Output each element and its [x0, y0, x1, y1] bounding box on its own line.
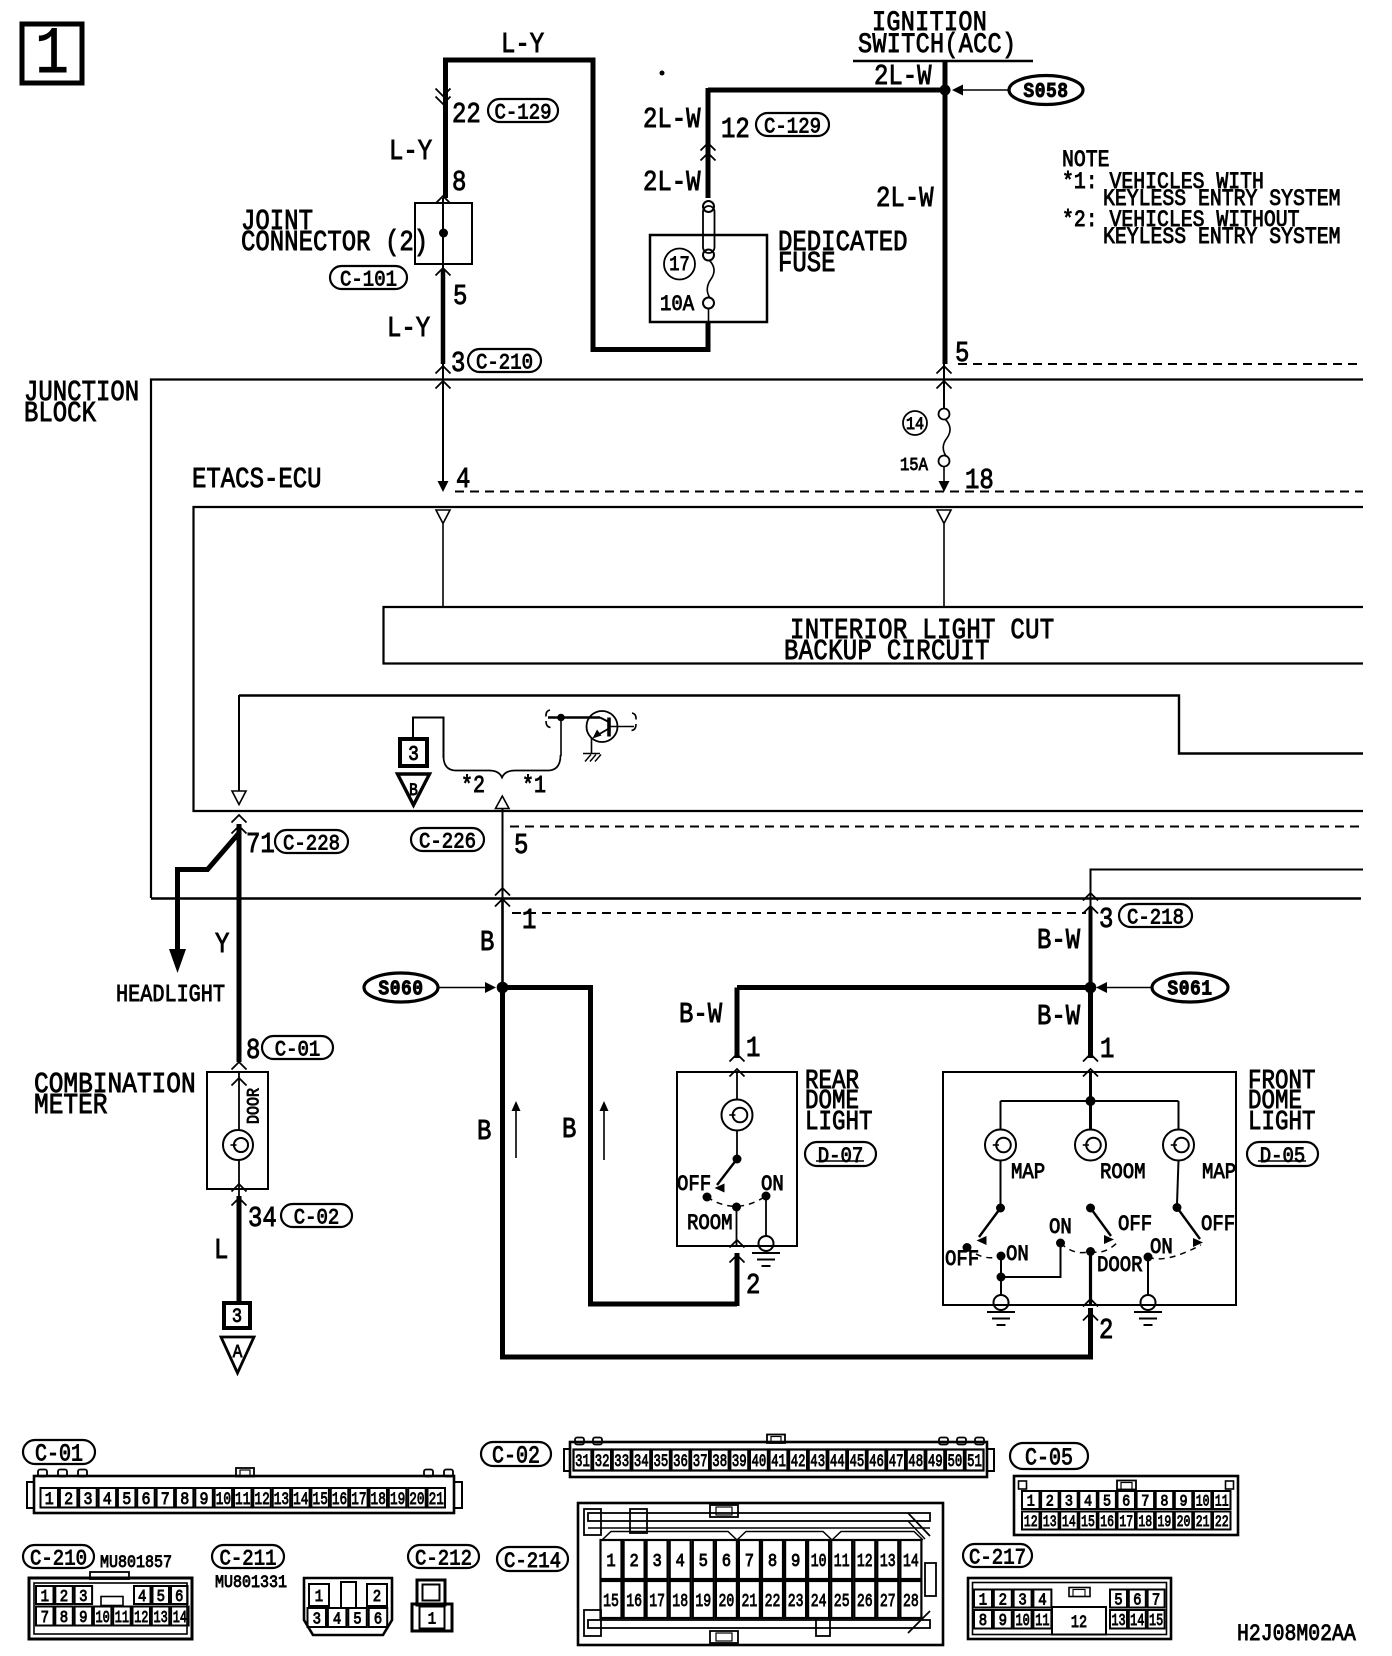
svg-text:13: 13 [880, 1551, 896, 1572]
map right ON wire down [1147, 1257, 1149, 1296]
transistor base junction dot [557, 714, 565, 722]
svg-text:21: 21 [1196, 1514, 1210, 1532]
terminal 3 box meter output [224, 1303, 250, 1328]
arrow into ETACS at pin 18 [939, 481, 950, 492]
map left branch node [997, 1273, 1006, 1282]
svg-text:34: 34 [248, 1202, 277, 1234]
svg-text:ON: ON [1049, 1216, 1072, 1241]
svg-text:22: 22 [765, 1591, 781, 1612]
svg-text:1: 1 [1100, 1033, 1114, 1065]
svg-text:9: 9 [1179, 1494, 1187, 1511]
svg-text:28: 28 [903, 1591, 919, 1612]
front dome map bulb left [985, 1130, 1016, 1161]
svg-text:B: B [477, 1115, 491, 1147]
svg-text:7: 7 [161, 1489, 170, 1509]
svg-text:B: B [480, 926, 494, 958]
ETACS-ECU box outline [194, 507, 1364, 811]
svg-text:41: 41 [771, 1453, 786, 1471]
connector C-05 pins 1-11 [1022, 1491, 1040, 1509]
svg-text:7: 7 [1152, 1590, 1160, 1609]
svg-text:17: 17 [669, 254, 689, 277]
output triangle to pin 71 [232, 791, 246, 805]
svg-text:4: 4 [1038, 1590, 1046, 1609]
wire ignition crossing into junction block [943, 364, 945, 408]
rear dome ON to ground wire [765, 1196, 767, 1236]
ETACS input triangle pin18 branch [937, 510, 951, 524]
svg-text:ETACS-ECU: ETACS-ECU [192, 463, 322, 495]
svg-text:ON: ON [761, 1173, 784, 1198]
svg-text:15: 15 [1081, 1514, 1095, 1532]
wire 2L-W ignition switch vertical [943, 61, 948, 364]
svg-text:8: 8 [452, 166, 466, 198]
svg-text:3: 3 [408, 743, 419, 767]
svg-text:5: 5 [1103, 1494, 1111, 1511]
svg-text:11: 11 [115, 1609, 129, 1627]
connector label C-01 [23, 1440, 95, 1464]
wire thick S060 to front dome loop [503, 985, 1091, 1357]
svg-text:BLOCK: BLOCK [24, 397, 96, 429]
svg-text:39: 39 [732, 1453, 747, 1471]
svg-text:12: 12 [134, 1609, 148, 1627]
svg-text:C-02: C-02 [294, 1206, 340, 1231]
front dome map bulb right [1163, 1130, 1194, 1161]
connector C-05 body [1014, 1476, 1238, 1535]
svg-text:12: 12 [721, 113, 750, 145]
page number box 1 [22, 24, 82, 83]
rear dome switch pivot [733, 1155, 742, 1164]
svg-text:3: 3 [232, 1306, 242, 1329]
svg-text:S060: S060 [378, 977, 423, 1001]
svg-text:8: 8 [180, 1489, 189, 1509]
svg-text:19: 19 [695, 1591, 711, 1612]
svg-text:1: 1 [315, 1587, 323, 1606]
connector C-01 pins 1-21 [41, 1488, 59, 1508]
connector label C-210 [468, 349, 541, 372]
svg-text:1: 1 [522, 904, 536, 936]
svg-text:40: 40 [752, 1453, 767, 1471]
svg-text:9: 9 [79, 1608, 87, 1627]
svg-text:KEYLESS ENTRY SYSTEM: KEYLESS ENTRY SYSTEM [1103, 224, 1340, 251]
svg-text:C-210: C-210 [30, 1547, 87, 1572]
svg-text:20: 20 [409, 1489, 424, 1510]
svg-text:C-226: C-226 [419, 830, 476, 855]
svg-text:S061: S061 [1167, 977, 1212, 1001]
svg-text:6: 6 [374, 1609, 382, 1628]
svg-text:26: 26 [857, 1591, 873, 1612]
svg-text:C-214: C-214 [504, 1550, 561, 1575]
connector label C-05 [1010, 1443, 1088, 1469]
rear dome switch arc [707, 1196, 766, 1206]
svg-text:17: 17 [351, 1489, 366, 1510]
svg-text:20: 20 [719, 1591, 735, 1612]
wire fuse output [708, 309, 710, 323]
meter wire crossing chevrons [232, 1062, 247, 1070]
wire B down to S060 [501, 898, 504, 987]
connector C-02 body [570, 1442, 987, 1477]
connector C-05 pins 12-22 [1022, 1512, 1040, 1530]
svg-text:1: 1 [979, 1590, 987, 1609]
wire Y combination meter feed [237, 824, 242, 1062]
connector C-211 pins [309, 1584, 329, 1606]
front dome feed to distribution [1089, 1072, 1092, 1101]
wire option select crossing block bottom [495, 888, 510, 896]
svg-text:L: L [214, 1234, 228, 1266]
map right switch arc [1148, 1245, 1201, 1259]
svg-text:METER: METER [34, 1090, 107, 1122]
svg-text:20: 20 [1177, 1514, 1191, 1532]
wire front dome riser to page right [1091, 870, 1364, 911]
room ON contact [1056, 1239, 1065, 1248]
svg-text:C-210: C-210 [476, 351, 533, 376]
svg-text:10A: 10A [660, 293, 695, 318]
svg-text:36: 36 [673, 1453, 688, 1471]
svg-text:L-Y: L-Y [389, 135, 432, 167]
dedicated fuse box [650, 235, 767, 322]
svg-text:2: 2 [64, 1489, 73, 1509]
wire fuse 14 output [943, 466, 945, 488]
splice S058 [1009, 76, 1083, 105]
svg-text:6: 6 [722, 1552, 731, 1572]
svg-text:24: 24 [811, 1591, 827, 1612]
svg-text:23: 23 [788, 1591, 804, 1612]
svg-text:ROOM: ROOM [687, 1212, 733, 1237]
svg-text:49: 49 [928, 1453, 943, 1471]
junction block bottom edge [151, 897, 1361, 899]
svg-text:10: 10 [95, 1609, 109, 1627]
map left switch arc [967, 1248, 1001, 1258]
svg-text:3: 3 [451, 347, 465, 379]
map left bulb to switch [1000, 1161, 1002, 1205]
transistor ground [583, 753, 600, 755]
svg-text:2: 2 [999, 1590, 1007, 1609]
svg-text:10: 10 [216, 1489, 231, 1510]
svg-text:1: 1 [606, 1552, 615, 1572]
connector C-214 pins 1-14 [601, 1540, 622, 1579]
svg-text:C-129: C-129 [495, 101, 552, 126]
transistor collector wire [609, 726, 634, 728]
svg-text:B-W: B-W [1037, 924, 1080, 956]
connector label D-07 [805, 1142, 876, 1166]
svg-text:1: 1 [35, 18, 69, 92]
transistor emitter wire [591, 737, 593, 754]
connector C-214 pins 15-28 [601, 1581, 622, 1618]
svg-text:MU801857: MU801857 [100, 1552, 172, 1572]
svg-text:C-02: C-02 [492, 1443, 540, 1470]
svg-text:2: 2 [1099, 1314, 1113, 1346]
svg-text:48: 48 [908, 1453, 923, 1471]
svg-text:2: 2 [746, 1269, 760, 1301]
fuse 14 top terminal [939, 409, 950, 420]
front dome map lamp right drop [1178, 1101, 1180, 1130]
svg-text:HEADLIGHT: HEADLIGHT [116, 982, 225, 1009]
fuse number circle 17 [664, 249, 695, 280]
node S061 junction dot [1085, 982, 1097, 994]
svg-text:12: 12 [1024, 1514, 1038, 1532]
rear dome ON contact [762, 1192, 771, 1201]
connector label C-129 (L-Y branch) [488, 99, 558, 122]
arrow into ETACS at pin 4 [438, 481, 449, 492]
connector label C-02 (wire) [281, 1204, 352, 1227]
svg-text:ON: ON [1150, 1236, 1173, 1261]
connector label C-212 [408, 1545, 479, 1568]
svg-text:C-01: C-01 [35, 1441, 83, 1468]
svg-text:8: 8 [768, 1552, 777, 1572]
map left switch pivot [996, 1204, 1005, 1213]
svg-text:9: 9 [999, 1611, 1007, 1630]
svg-text:22: 22 [452, 98, 481, 130]
wire to backup circuit left [442, 524, 444, 606]
svg-text:19: 19 [1158, 1514, 1172, 1532]
rear dome bulb [722, 1100, 753, 1131]
svg-text:B: B [409, 781, 418, 800]
svg-text:2: 2 [1046, 1494, 1054, 1511]
svg-text:35: 35 [654, 1453, 669, 1471]
door indicator bulb [223, 1130, 253, 1160]
connector A triangle [221, 1337, 254, 1373]
connector C-211 body [304, 1578, 392, 1635]
svg-text:7: 7 [745, 1552, 754, 1572]
svg-text:11: 11 [235, 1489, 250, 1510]
connector C-217 pins 8-15 [974, 1610, 992, 1629]
wire thick rear-to-front dome bus [737, 985, 1091, 990]
svg-text:3: 3 [1065, 1494, 1073, 1511]
svg-text:14: 14 [1062, 1514, 1076, 1532]
svg-text:2: 2 [629, 1552, 638, 1572]
connector label C-210 [23, 1545, 94, 1568]
connector label C-02 [481, 1442, 551, 1466]
svg-text:14: 14 [293, 1489, 308, 1510]
map left ground circle [994, 1295, 1009, 1310]
splice S061 [1152, 973, 1228, 1002]
svg-text:12: 12 [857, 1551, 873, 1572]
svg-text:5: 5 [514, 829, 528, 861]
svg-text:16: 16 [1100, 1514, 1114, 1532]
svg-text:OFF: OFF [677, 1173, 711, 1198]
meter bulb to pin 34 [238, 1160, 240, 1196]
wire rear dome pin2 thick [735, 1253, 740, 1306]
svg-text:3: 3 [83, 1489, 92, 1509]
svg-text:10: 10 [1015, 1612, 1029, 1630]
svg-text:14: 14 [906, 414, 924, 434]
wire L-Y to junction block [441, 270, 446, 364]
dashed boundary right of ignition wire [958, 363, 1363, 365]
svg-text:31: 31 [575, 1453, 590, 1471]
front dome room lamp drop [1089, 1101, 1092, 1130]
svg-text:3: 3 [1099, 903, 1113, 935]
rear dome ROOM contact [732, 1203, 741, 1212]
connector label C-217 [963, 1544, 1032, 1567]
svg-text:16: 16 [332, 1489, 347, 1510]
front dome room bulb [1075, 1130, 1106, 1161]
svg-text:9: 9 [791, 1552, 800, 1572]
dashed line below block bottom [512, 912, 1086, 914]
map left switch blade [979, 1208, 1001, 1237]
svg-text:45: 45 [850, 1453, 865, 1471]
svg-text:SWITCH(ACC): SWITCH(ACC) [858, 29, 1016, 60]
svg-text:MU801331: MU801331 [215, 1572, 287, 1592]
node S058 junction dot [940, 85, 951, 96]
svg-text:14: 14 [903, 1551, 919, 1572]
svg-text:21: 21 [429, 1489, 444, 1510]
svg-text:*2: *2 [461, 773, 485, 800]
map left ground [987, 1311, 1015, 1313]
svg-text:1: 1 [746, 1032, 760, 1064]
map left OFF contact [963, 1243, 972, 1252]
room switch arc right [1091, 1243, 1118, 1252]
connector label C-01 (wire) [262, 1036, 333, 1059]
wire base junction to brace *1 [560, 718, 562, 757]
svg-text:B-W: B-W [1037, 1000, 1080, 1032]
svg-text:11: 11 [1215, 1493, 1229, 1511]
svg-text:13: 13 [1043, 1514, 1057, 1532]
front dome light box [943, 1072, 1236, 1305]
svg-text:6: 6 [141, 1489, 150, 1509]
svg-text:2: 2 [60, 1587, 68, 1606]
svg-text:FUSE: FUSE [778, 247, 836, 279]
svg-text:DOOR: DOOR [1097, 1254, 1143, 1279]
scan speck [660, 71, 665, 76]
room switch arc left [1061, 1243, 1091, 1253]
svg-text:27: 27 [880, 1591, 896, 1612]
ETACS input triangle pin4 branch [436, 510, 450, 524]
fuse terminal circle mid [703, 250, 714, 261]
svg-text:12: 12 [1071, 1612, 1087, 1632]
svg-text:2L-W: 2L-W [643, 166, 701, 198]
option select brace [444, 755, 561, 778]
connector C-129 pin 22 crossing chevrons [436, 89, 451, 97]
svg-text:5: 5 [353, 1609, 361, 1628]
svg-text:S058: S058 [1023, 80, 1068, 104]
svg-text:MAP: MAP [1011, 1161, 1045, 1186]
connector label D-05 [1247, 1142, 1318, 1166]
inline connector bracket right [632, 713, 637, 731]
svg-text:C-01: C-01 [275, 1038, 321, 1063]
wire 2L-W horizontal to fuse branch [708, 88, 948, 93]
rear dome ground circle [759, 1236, 774, 1251]
wire option select down [502, 809, 504, 899]
connector C-210 pins 7-14 [36, 1607, 54, 1626]
connector C-210 pins 1-6 [36, 1586, 54, 1604]
svg-text:46: 46 [869, 1453, 884, 1471]
room switch blade [1091, 1208, 1112, 1236]
wire room DOOR down [1089, 1252, 1092, 1306]
fuse terminal circle bottom [703, 298, 714, 309]
rear dome light box [677, 1072, 797, 1246]
svg-text:50: 50 [948, 1453, 963, 1471]
svg-text:8: 8 [1160, 1494, 1168, 1511]
ETACS dashed bottom boundary [510, 826, 1363, 828]
svg-text:10: 10 [1196, 1493, 1210, 1511]
svg-text:CONNECTOR (2): CONNECTOR (2) [241, 226, 428, 258]
wire thick loop fuse to L-Y run [446, 60, 709, 350]
connector C-217 body [968, 1578, 1171, 1639]
svg-text:MAP: MAP [1202, 1161, 1236, 1186]
svg-text:5: 5 [122, 1489, 131, 1509]
front dome map lamp left drop [1000, 1101, 1002, 1130]
svg-text:9: 9 [199, 1489, 208, 1509]
svg-text:C-129: C-129 [764, 115, 821, 140]
connector C-02 pins 31-51 [574, 1450, 592, 1471]
svg-text:C-101: C-101 [340, 268, 397, 293]
svg-text:13: 13 [153, 1609, 167, 1627]
svg-text:DOOR: DOOR [243, 1088, 263, 1124]
svg-text:C-211: C-211 [220, 1547, 277, 1572]
connector C-214 chamfer band [602, 1532, 923, 1541]
svg-text:1: 1 [45, 1489, 54, 1509]
fuse terminal circle top [703, 201, 714, 212]
svg-text:L-Y: L-Y [501, 28, 544, 60]
wire 2L-W down to dedicated fuse [706, 88, 711, 198]
rear dome OFF contact [703, 1193, 712, 1202]
svg-text:5: 5 [1114, 1590, 1122, 1609]
svg-text:5: 5 [699, 1552, 708, 1572]
svg-text:*1: *1 [522, 773, 546, 800]
svg-text:LIGHT: LIGHT [805, 1109, 872, 1138]
room DOOR contact [1086, 1247, 1095, 1256]
wire thick S060 to rear dome loop [503, 988, 738, 1305]
svg-text:43: 43 [810, 1453, 825, 1471]
svg-text:18: 18 [1138, 1514, 1152, 1532]
connector label C-228 [275, 830, 348, 853]
svg-text:21: 21 [742, 1591, 758, 1612]
svg-text:18: 18 [672, 1591, 688, 1612]
svg-text:4: 4 [1084, 1494, 1092, 1511]
wire B-W into S061 [1089, 908, 1093, 988]
svg-text:C-217: C-217 [969, 1546, 1026, 1571]
wire to backup circuit right [943, 524, 945, 606]
svg-text:A: A [233, 1342, 243, 1364]
interior light cut backup circuit box [384, 607, 1364, 664]
svg-text:2L-W: 2L-W [876, 182, 934, 214]
wire terminal 3 to option brace [413, 718, 444, 759]
svg-text:51: 51 [967, 1453, 982, 1471]
connector C-129 pin 12 crossing chevrons [701, 143, 716, 151]
svg-text:1: 1 [41, 1587, 49, 1606]
svg-text:42: 42 [791, 1453, 806, 1471]
meter wire to door bulb [238, 1072, 240, 1130]
wire L to connector A [237, 1196, 242, 1303]
svg-text:H2J08M02AA: H2J08M02AA [1237, 1621, 1356, 1648]
wire B-W front dome drop [1088, 988, 1093, 1059]
svg-text:D-07: D-07 [818, 1145, 864, 1170]
svg-text:17: 17 [649, 1591, 665, 1612]
connector label C-129 (fuse branch) [756, 113, 829, 136]
map right ground circle [1141, 1295, 1156, 1310]
svg-text:1: 1 [428, 1609, 436, 1628]
svg-text:B: B [562, 1113, 576, 1145]
room switch pivot [1086, 1204, 1095, 1213]
svg-text:OFF: OFF [1201, 1213, 1235, 1238]
svg-text:3: 3 [313, 1609, 321, 1628]
svg-text:LIGHT: LIGHT [1248, 1109, 1315, 1138]
joint connector (2) box C-101 [415, 203, 472, 264]
svg-text:BACKUP CIRCUIT: BACKUP CIRCUIT [784, 635, 990, 667]
front dome distribution node [1086, 1096, 1096, 1106]
wire through joint connector [442, 198, 444, 270]
svg-text:ROOM: ROOM [1100, 1161, 1146, 1186]
svg-text:32: 32 [595, 1453, 610, 1471]
svg-text:25: 25 [834, 1591, 850, 1612]
terminal 3 box (internal) [400, 739, 427, 766]
svg-text:14: 14 [1130, 1612, 1144, 1630]
fuse 14 number circle [903, 411, 927, 435]
map right switch pivot [1173, 1203, 1182, 1212]
transistor Q1 interior light cut [587, 711, 618, 742]
svg-text:1: 1 [1027, 1494, 1035, 1511]
svg-text:22: 22 [1215, 1514, 1229, 1532]
connector C-214 right latch [925, 1563, 936, 1596]
fuse 14 element squiggle [943, 419, 950, 456]
